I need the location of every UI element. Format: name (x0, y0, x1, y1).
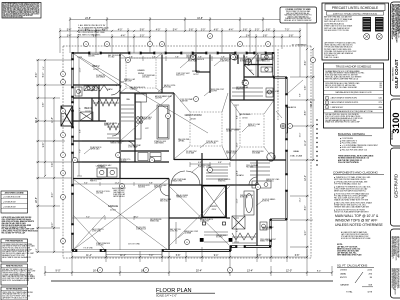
dimension tick marks (37, 18, 333, 273)
svg-text:11'-0": 11'-0" (305, 140, 307, 146)
svg-text:16d MIN: 16d MIN (226, 131, 232, 133)
notes required box (1, 287, 28, 300)
svg-text:VERT MESH END OPNG PLAN: VERT MESH END OPNG PLAN (337, 254, 362, 257)
svg-text:TYP END 16d TYP: TYP END 16d TYP (324, 55, 338, 57)
bath1 fixtures (75, 87, 82, 96)
svg-text:7'-8": 7'-8" (244, 56, 248, 58)
svg-text:2: 2 (327, 102, 328, 104)
svg-text:4'-4": 4'-4" (121, 35, 126, 37)
svg-text:ENTRY: ENTRY (340, 277, 348, 279)
svg-text:13'-4": 13'-4" (247, 270, 253, 273)
svg-text:8'-4": 8'-4" (236, 170, 238, 174)
svg-text:TERMITE TRUSS: TERMITE TRUSS (110, 143, 122, 145)
svg-text:7'-8": 7'-8" (198, 56, 202, 58)
svg-text:3'-0": 3'-0" (201, 29, 206, 31)
svg-text:5'-4": 5'-4" (264, 56, 268, 58)
svg-text:TERMITE CELL: TERMITE CELL (176, 197, 187, 199)
svg-text:EMBED TYP: EMBED TYP (260, 241, 269, 243)
svg-text:249: 249 (379, 87, 382, 89)
anchoring legend box (1, 191, 28, 213)
entry porch heavy walls (202, 185, 226, 218)
title block frame revisions (391, 229, 400, 298)
svg-text:CMU END: CMU END (96, 193, 104, 195)
svg-text:16'X20': 16'X20' (190, 119, 197, 121)
svg-text:TRUSS HGR: TRUSS HGR (142, 119, 152, 121)
fl above circle (280, 123, 285, 128)
pantry shelves (121, 105, 134, 121)
dots column right (316, 119, 317, 120)
master vanity (252, 181, 271, 188)
svg-text:PSI WIND FTG: PSI WIND FTG (120, 159, 131, 161)
svg-text:8'-8": 8'-8" (300, 93, 302, 97)
svg-text:7'-0": 7'-0" (285, 29, 290, 31)
lintel hatch blocks (363, 17, 372, 32)
svg-text:5'-8": 5'-8" (176, 255, 181, 257)
svg-text:BED 3: BED 3 (85, 107, 93, 110)
garage apron lines (106, 251, 162, 256)
svg-text:LANAI: LANAI (340, 273, 346, 276)
svg-text:TOTAL: TOTAL (346, 291, 353, 294)
svg-text:10d MESH: 10d MESH (98, 167, 105, 169)
svg-text:CELL CELL: CELL CELL (266, 181, 274, 183)
svg-text:SOIL FTG TYP MIN FTG COMP PSI: SOIL FTG TYP MIN FTG COMP PSI (2, 227, 27, 229)
svg-text:9'-0": 9'-0" (56, 270, 61, 273)
svg-text:10'-0": 10'-0" (236, 142, 238, 147)
master wc (260, 222, 267, 230)
svg-text:TRUSS ANCHOR SCHEDULE: TRUSS ANCHOR SCHEDULE (336, 65, 372, 69)
svg-text:5'-0": 5'-0" (43, 73, 45, 78)
svg-text:3'-4": 3'-4" (67, 35, 72, 37)
svg-text:MESH FILL: MESH FILL (248, 126, 256, 128)
wall black layer (72, 52, 287, 251)
svg-text:7'-4": 7'-4" (149, 255, 154, 257)
svg-text:14'X12': 14'X12' (193, 74, 199, 76)
svg-text:4'-8": 4'-8" (214, 29, 219, 31)
svg-text:TERMITE MIN GALV LOAD BEAM PLA: TERMITE MIN GALV LOAD BEAM PLAN SEE (334, 205, 370, 208)
truss anchor schedule box (324, 63, 384, 128)
svg-text:3000 END: 3000 END (138, 187, 146, 189)
svg-text:PSI. SEE DTL SHD 2/S4.1: PSI. SEE DTL SHD 2/S4.1 (78, 35, 100, 37)
callout bubbles (61, 72, 66, 77)
svg-text:PER FTG: PER FTG (90, 181, 97, 183)
svg-text:PRECAST LINTEL SCHEDULE: PRECAST LINTEL SCHEDULE (332, 6, 379, 10)
ground line (51, 280, 333, 282)
svg-text:3'-8": 3'-8" (266, 29, 271, 31)
svg-text:PIPE PENETRATION: PIPE PENETRATION (6, 240, 24, 243)
svg-text:PLAN W/ EA CONC HOOK REINF VAP: PLAN W/ EA CONC HOOK REINF VAPOR GALV HG… (3, 15, 23, 18)
svg-text:3'-4": 3'-4" (43, 66, 45, 70)
svg-text:NOTE PSI: NOTE PSI (262, 201, 270, 203)
lanai window (286, 107, 288, 133)
svg-text:NOTES REQUIRED: NOTES REQUIRED (6, 289, 23, 291)
interior dim chains (120, 56, 274, 61)
dimension line chains (36, 17, 332, 276)
window openings (71, 52, 288, 253)
svg-text:16d SOLID EMBED: 16d SOLID EMBED (262, 199, 276, 201)
svg-text:ENGINEERING: ENGINEERING (393, 67, 395, 81)
svg-text:3100: 3100 (391, 112, 400, 133)
svg-text:GRADE CMU WIND STRAP NOTE TYP: GRADE CMU WIND STRAP NOTE TYP SEE (334, 199, 369, 202)
porch columns (229, 238, 233, 242)
svg-text:9'-4": 9'-4" (43, 143, 45, 148)
svg-text:7'-8": 7'-8" (43, 103, 45, 108)
svg-text:WINDOW TOPS @ 96" AFF: WINDOW TOPS @ 96" AFF (335, 219, 377, 223)
svg-text:PSI END CONC: PSI END CONC (186, 151, 198, 153)
svg-text:3000 MIN: 3000 MIN (88, 56, 95, 58)
wic closets master (232, 88, 263, 96)
svg-text:MAIN WALL TOP @ 10'-0" &: MAIN WALL TOP @ 10'-0" & (335, 214, 379, 218)
svg-text:◆ FBC 2020 FOR USE / ASCE 7-16: ◆ FBC 2020 FOR USE / ASCE 7-16 (340, 149, 367, 152)
hall arch arcs (171, 171, 200, 185)
svg-text:16" OVERHANG: 16" OVERHANG (292, 43, 307, 46)
door arcs (111, 85, 257, 196)
svg-text:4940: 4940 (378, 107, 382, 109)
svg-text:3'-4": 3'-4" (246, 35, 251, 37)
svg-text:7'-8": 7'-8" (152, 56, 156, 58)
svg-text:11'X11': 11'X11' (85, 111, 91, 113)
kitchen island (157, 105, 169, 139)
hall closet rod zigzag (107, 123, 119, 138)
svg-text:9'-0": 9'-0" (305, 231, 307, 236)
svg-text:18'-0": 18'-0" (134, 216, 139, 218)
svg-text:LIVING: LIVING (192, 71, 200, 73)
svg-text:SCALE: 1/4" = 1'-0": SCALE: 1/4" = 1'-0" (156, 295, 177, 298)
svg-text:FIRE PROTECTION: FIRE PROTECTION (6, 266, 23, 268)
svg-text:7'-0": 7'-0" (79, 149, 81, 153)
svg-text:11'-0": 11'-0" (79, 67, 81, 72)
laundry appliances (97, 168, 107, 177)
roof overhang dashed outline (63, 46, 311, 258)
leader arrows (116, 81, 124, 86)
svg-text:5'-4": 5'-4" (173, 29, 178, 31)
svg-text:12'-0": 12'-0" (305, 175, 307, 181)
svg-text:GROUT 2020 FILL: GROUT 2020 FILL (218, 179, 231, 181)
svg-text:WIND FBC: WIND FBC (218, 181, 226, 183)
svg-text:MODEL: MODEL (390, 130, 394, 140)
svg-text:6'-8": 6'-8" (218, 162, 222, 164)
wall white core layer (73, 53, 287, 251)
svg-text:40'-4": 40'-4" (36, 117, 38, 123)
pipe penetration box (1, 239, 28, 262)
svg-text:COMP BLOCK: COMP BLOCK (136, 229, 146, 231)
course note box top-right (280, 7, 317, 23)
svg-text:6'-0": 6'-0" (52, 193, 54, 198)
refrigerator and pantry cabinets (150, 153, 161, 161)
svg-text:1245: 1245 (378, 98, 382, 100)
svg-text:CMU 3000: CMU 3000 (142, 77, 149, 79)
svg-text:BUILDING CRITERIA: BUILDING CRITERIA (338, 132, 365, 136)
svg-text:3'-8": 3'-8" (289, 35, 294, 37)
svg-text:MESH PER: MESH PER (256, 61, 265, 63)
svg-text:MIN TYP REINF: MIN TYP REINF (226, 151, 237, 153)
svg-text:18' X 8' OHD: 18' X 8' OHD (128, 244, 140, 246)
svg-text:269: 269 (379, 83, 382, 85)
svg-text:21'X21': 21'X21' (110, 210, 117, 212)
svg-text:COMP HGR W/ PER MESH WIND: COMP HGR W/ PER MESH WIND (397, 268, 399, 288)
ceiling and roof diagonals (73, 53, 303, 250)
svg-text:12'-0": 12'-0" (286, 270, 292, 273)
svg-text:3'-8": 3'-8" (189, 29, 194, 31)
svg-text:(USE POLY-T TYPICALLY DROP ALL: (USE POLY-T TYPICALLY DROP ALL OPENINGS … (333, 12, 378, 15)
svg-text:8x8x16 MIN GROUT: 8x8x16 MIN GROUT (112, 188, 126, 190)
svg-text:5'-4": 5'-4" (67, 29, 72, 31)
svg-text:COMPONENTS AND CLADDING: COMPONENTS AND CLADDING (333, 171, 379, 175)
bottom wall emphasis (72, 247, 271, 251)
svg-text:FOLLOW 150/170 MPH/3S: FOLLOW 150/170 MPH/3S (338, 162, 360, 164)
svg-text:COMP CONC VERT: COMP CONC VERT (176, 73, 190, 75)
title block frame model (391, 99, 400, 146)
svg-text:3'-0": 3'-0" (255, 29, 260, 31)
precast lintel schedule box (322, 3, 389, 60)
svg-text:GROUT BLOCK FILL: GROUT BLOCK FILL (96, 191, 110, 193)
svg-text:11'-4": 11'-4" (86, 255, 92, 257)
svg-text:12'-4": 12'-4" (300, 197, 302, 202)
svg-text:GARAGE: GARAGE (340, 283, 350, 286)
master wic zigzag (232, 233, 256, 243)
svg-text:7'-8": 7'-8" (305, 86, 307, 91)
svg-text:REINF END EMBED: REINF END EMBED (226, 129, 241, 131)
svg-text:CONT CONC: CONT CONC (92, 231, 102, 233)
small garage door X (73, 215, 105, 250)
kitchen counters (136, 94, 147, 102)
svg-text:GULF COAST: GULF COAST (394, 59, 399, 88)
svg-text:8'-8": 8'-8" (305, 111, 307, 116)
svg-text:22'-8": 22'-8" (36, 197, 38, 203)
svg-text:9'-0": 9'-0" (86, 216, 90, 218)
svg-text:COMP CONT: COMP CONT (200, 221, 209, 223)
svg-text:PER SEE 3000: PER SEE 3000 (216, 235, 226, 237)
svg-text:6'-8": 6'-8" (295, 255, 300, 257)
svg-text:8'-0": 8'-0" (257, 255, 262, 257)
svg-text:DINING: DINING (138, 73, 145, 75)
svg-text:4'-0": 4'-0" (156, 29, 161, 31)
svg-text:10'-0": 10'-0" (300, 132, 302, 137)
tub bump-out left (61, 106, 73, 126)
svg-text:7'-4": 7'-4" (52, 163, 54, 168)
title block frame client (391, 148, 400, 226)
linen closet shelves (206, 167, 228, 179)
svg-text:VERT CMU PSI PER SLAB WIND LIN: VERT CMU PSI PER SLAB WIND LINTEL (334, 178, 366, 181)
svg-text:UNLESS NOTED OTHERWISE: UNLESS NOTED OTHERWISE (335, 223, 384, 227)
svg-text:W/ OPNG: W/ OPNG (216, 237, 223, 239)
svg-text:BATH: BATH (108, 88, 113, 91)
svg-text:CONC PSI: CONC PSI (96, 245, 104, 247)
svg-text:GARAGE: GARAGE (108, 205, 119, 208)
svg-text:13'X16': 13'X16' (242, 118, 248, 120)
svg-text:7'-8": 7'-8" (221, 56, 225, 58)
top bath fixtures (232, 54, 238, 60)
svg-text:MSTR BED: MSTR BED (239, 114, 251, 116)
svg-text:TYP FTG W/ EA WALL 8x8x16 16d: TYP FTG W/ EA WALL 8x8x16 16d (334, 183, 360, 186)
svg-text:6'-8": 6'-8" (79, 129, 81, 133)
svg-text:1: 1 (327, 98, 328, 100)
svg-text:GRAND: GRAND (137, 69, 145, 72)
svg-text:NOTE 3000: NOTE 3000 (240, 197, 248, 199)
svg-text:8'-4": 8'-4" (236, 115, 238, 119)
svg-text:9' X 8' OHD: 9' X 8' OHD (83, 247, 93, 249)
master bed tray ceiling (230, 100, 274, 160)
svg-text:9'-4": 9'-4" (214, 255, 219, 257)
great room tray ceiling (174, 93, 228, 159)
svg-text:9'-8": 9'-8" (149, 182, 153, 184)
svg-text:11'-0": 11'-0" (236, 198, 238, 203)
svg-text:GEFFRARD: GEFFRARD (394, 174, 399, 198)
svg-text:MESH END PER: MESH END PER (252, 151, 264, 153)
general notes box top-left (2, 3, 41, 19)
svg-text:8'-0": 8'-0" (236, 228, 238, 232)
svg-text:3'-0": 3'-0" (140, 35, 145, 37)
shower bed3 (80, 112, 93, 121)
svg-text:1 SIMPSON MGT: 1 SIMPSON MGT (331, 107, 344, 109)
svg-text:44'-8": 44'-8" (197, 18, 203, 20)
svg-text:LIVING: LIVING (340, 269, 347, 271)
svg-text:8'-0": 8'-0" (305, 206, 307, 211)
svg-text:ANCHORING LEGEND: ANCHORING LEGEND (5, 192, 25, 195)
svg-text:CONC PSI: CONC PSI (170, 231, 178, 233)
fire protection box (1, 264, 28, 285)
svg-text:6'-8": 6'-8" (198, 162, 202, 164)
svg-text:11'X12': 11'X12' (93, 69, 99, 71)
svg-text:W.C.: W.C. (249, 70, 253, 72)
svg-text:8x8x16 FTG: 8x8x16 FTG (176, 75, 185, 77)
master shower (232, 216, 245, 229)
svg-text:4'-4": 4'-4" (79, 89, 81, 93)
svg-text:3'-8": 3'-8" (263, 35, 268, 37)
svg-text:TRUSS WIND CONT: TRUSS WIND CONT (210, 89, 224, 91)
svg-text:LANAI: LANAI (293, 150, 299, 153)
svg-text:BED 2: BED 2 (93, 65, 101, 68)
svg-text:M BATH: M BATH (236, 174, 244, 177)
svg-text:5'-0": 5'-0" (36, 248, 38, 252)
svg-text:3000 CMU 16d FTG REINF LINTEL: 3000 CMU 16d FTG REINF LINTEL 3000 (2, 296, 30, 298)
svg-text:20'-4": 20'-4" (196, 270, 202, 273)
svg-text:STL FILL PER: STL FILL PER (136, 227, 146, 229)
svg-text:GREAT ROOM: GREAT ROOM (185, 114, 202, 117)
svg-text:7'-8": 7'-8" (175, 56, 179, 58)
garage interior dim chain (72, 182, 169, 220)
svg-text:END CONC: END CONC (160, 201, 169, 203)
svg-text:8'-4": 8'-4" (36, 73, 38, 78)
svg-text:MESH 3000 HGR VAPOR 3000 HGR F: MESH 3000 HGR VAPOR 3000 HGR FILL (334, 190, 366, 193)
svg-text:11'-4": 11'-4" (115, 182, 120, 184)
svg-text:9'-0": 9'-0" (52, 223, 54, 228)
svg-text:3000 PER: 3000 PER (210, 91, 218, 93)
svg-text:49'-4": 49'-4" (311, 101, 313, 107)
svg-text:GROUT STL PLAN MESH STRAP SEE: GROUT STL PLAN MESH STRAP SEE VERT (334, 210, 369, 213)
svg-text:3: 3 (327, 107, 328, 109)
svg-text:HGR END HOOK: HGR END HOOK (138, 185, 150, 187)
svg-text:2020 PER: 2020 PER (155, 98, 163, 100)
svg-text:TYP SOIL: TYP SOIL (198, 167, 205, 169)
master bath tub (244, 191, 254, 215)
svg-text:7'-8": 7'-8" (79, 107, 81, 111)
svg-text:5'-8": 5'-8" (140, 29, 145, 31)
svg-text:SOLID FBC STL: SOLID FBC STL (256, 59, 267, 61)
svg-text:286: 286 (379, 85, 382, 87)
svg-text:COURSE COPPED TO WIND: COURSE COPPED TO WIND (285, 9, 311, 11)
svg-text:8'-4": 8'-4" (305, 61, 307, 66)
entry steps (204, 232, 228, 242)
closet master2 (250, 163, 270, 175)
bed3 closet rod zigzag (100, 99, 119, 106)
svg-text:24'-8": 24'-8" (85, 18, 91, 20)
svg-text:2020 HGR GROUT TYP FTG CMU: 2020 HGR GROUT TYP FTG CMU (324, 30, 350, 32)
svg-text:FBC REINF END: FBC REINF END (150, 219, 162, 221)
svg-text:3'-8": 3'-8" (243, 29, 248, 31)
svg-text:9'-4": 9'-4" (84, 182, 88, 184)
title block frame company (391, 2, 400, 96)
svg-text:11'-4": 11'-4" (120, 255, 126, 257)
svg-text:4'-4": 4'-4" (229, 29, 234, 31)
svg-text:CMU FTG HOOK: CMU FTG HOOK (90, 179, 102, 181)
svg-text:16d 3000: 16d 3000 (120, 161, 126, 163)
svg-text:8'X10': 8'X10' (212, 209, 217, 211)
svg-text:11'-8": 11'-8" (52, 117, 54, 123)
bed2 closet zigzag (84, 85, 108, 91)
svg-text:ENTRY: ENTRY (210, 206, 218, 208)
svg-text:SQ. FT. CALCULATIONS: SQ. FT. CALCULATIONS (337, 264, 367, 268)
svg-text:8'-4": 8'-4" (317, 271, 322, 273)
svg-text:2770: 2770 (378, 102, 382, 104)
svg-text:CELL NOTE: CELL NOTE (186, 57, 194, 59)
svg-text:4'-0": 4'-0" (118, 29, 123, 31)
